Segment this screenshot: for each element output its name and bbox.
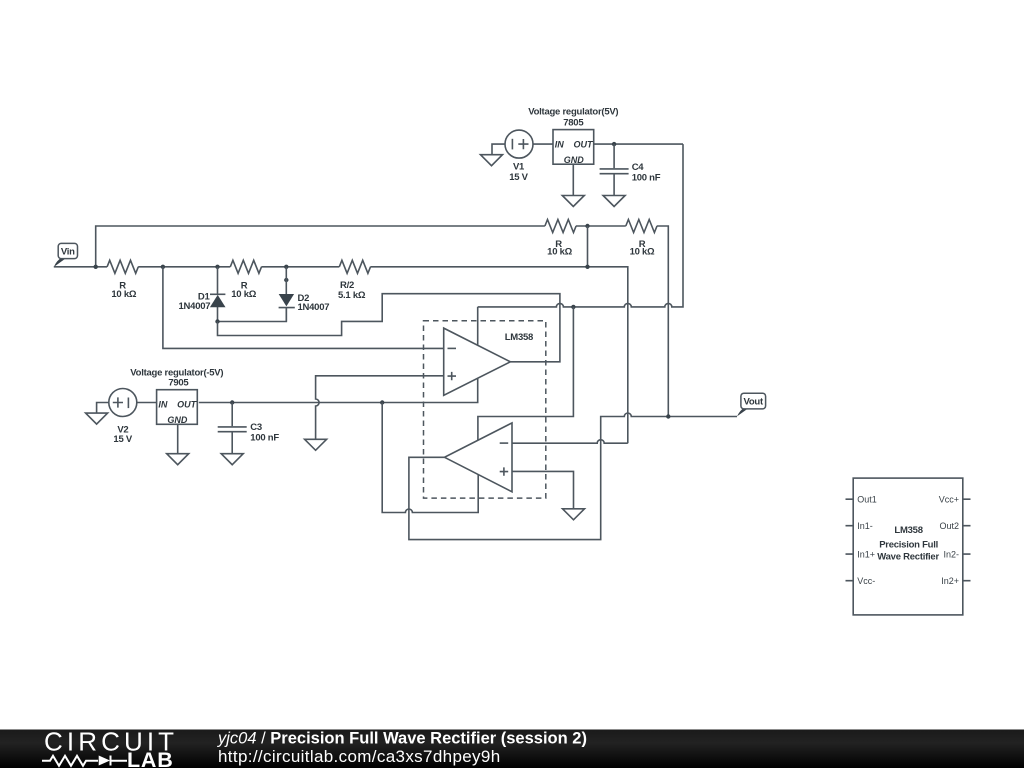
wire 7805 GND pin: [572, 164, 574, 195]
IC block LM358 Precision Full Wave Rectifier: [846, 478, 971, 615]
ground (V1): [481, 155, 503, 166]
Vin flag: [54, 243, 78, 267]
wire main input rail: [54, 267, 628, 443]
ground (op2 +): [563, 509, 585, 520]
wire vertical between top rail and main rail: [587, 226, 589, 267]
node dot Vout junction with top feedback resistor leg: [666, 414, 670, 418]
svg-text:Vin: Vin: [61, 247, 75, 258]
wire -5V rail from 7905 OUT to op1 V- pin (behind op1): [199, 307, 478, 403]
svg-text:C4: C4: [632, 162, 645, 173]
node dot D1 bottom: [215, 319, 219, 323]
svg-text:In2-: In2-: [943, 549, 959, 559]
wire +5V branch down to op2 V+ pin: [478, 307, 574, 441]
wire +5V rail from 7805 OUT down and across (hops three verticals): [478, 144, 683, 307]
diode D1 1N4007: [179, 292, 226, 313]
node dot main rail at x587: [585, 265, 589, 269]
capacitor C3 100nF: [218, 403, 280, 454]
svg-text:OUT: OUT: [177, 399, 198, 409]
ground (op1 +): [305, 439, 327, 450]
diode D2 1N4007: [279, 293, 330, 313]
wire 7805 OUT: [594, 143, 683, 145]
wire op1 non-inverting input to ground (hops -5V rail): [316, 376, 444, 440]
node dot at D1 top: [215, 265, 219, 269]
svg-text:Voltage regulator(5V): Voltage regulator(5V): [528, 106, 618, 117]
svg-text:http://circuitlab.com/ca3xs7dh: http://circuitlab.com/ca3xs7dhpey9h: [218, 747, 501, 766]
node dot between top resistors: [585, 224, 589, 228]
wire D1 branch: [217, 267, 219, 295]
footer bar: [0, 730, 1024, 768]
svg-text:Wave Rectifier: Wave Rectifier: [877, 552, 939, 563]
svg-text:GND: GND: [564, 155, 585, 165]
wire op2 inverting input (with hop over vout riser): [512, 440, 628, 444]
resistor R (top-right 10k): [626, 220, 657, 258]
dashed box around LM358 op-amps: [424, 321, 546, 498]
resistor R (top-left 10k): [545, 220, 576, 258]
ground (V2): [86, 413, 108, 424]
svg-text:7805: 7805: [563, 118, 584, 129]
svg-text:In2+: In2+: [941, 576, 959, 586]
capacitor C4 100nF: [600, 144, 661, 195]
voltage source V2 15V: [97, 389, 157, 446]
svg-text:yjc04 / Precision Full Wave Re: yjc04 / Precision Full Wave Rectifier (s…: [217, 730, 587, 748]
ground (C4): [603, 196, 625, 207]
node dot C3 tap: [230, 400, 234, 404]
svg-text:15 V: 15 V: [509, 172, 528, 183]
svg-text:10 kΩ: 10 kΩ: [630, 247, 655, 258]
wire op1 feedback stair from D1 bottom to op1 output: [218, 294, 560, 362]
wire op1 inverting input from node after R1: [163, 267, 444, 349]
voltage source V1 15V: [492, 130, 553, 183]
svg-text:In1+: In1+: [857, 549, 875, 559]
svg-text:7905: 7905: [168, 377, 189, 388]
wire op2 V- pin down and around to -5V rail (hop over op2 output): [382, 403, 478, 513]
svg-text:Out1: Out1: [857, 495, 877, 505]
node dot +5V branch: [571, 305, 575, 309]
svg-text:5.1 kΩ: 5.1 kΩ: [338, 290, 366, 301]
CircuitLab logo: [42, 727, 178, 768]
svg-text:V1: V1: [513, 161, 525, 172]
svg-text:100 nF: 100 nF: [250, 432, 279, 443]
svg-text:100 nF: 100 nF: [632, 173, 661, 184]
node dot -5V branch to op2: [380, 400, 384, 404]
node dot at D2 top: [284, 265, 288, 269]
ground (7805 GND): [562, 196, 584, 207]
wire 7905 GND pin: [177, 424, 179, 453]
svg-text:10 kΩ: 10 kΩ: [231, 289, 256, 300]
svg-text:LM358: LM358: [505, 332, 533, 343]
node A dot (Vin node): [94, 265, 98, 269]
wire D2 branch: [285, 267, 287, 294]
op-amp U1A (top): [444, 328, 511, 395]
svg-text:In1-: In1-: [857, 521, 873, 531]
node dot extra on D2 branch: [284, 278, 288, 282]
node dot C4 tap: [612, 142, 616, 146]
svg-text:IN: IN: [555, 139, 565, 149]
wire diode bottom link D1-D2: [218, 308, 287, 322]
svg-text:1N4007: 1N4007: [298, 302, 330, 313]
wire op2 output to Vout line (hops under, then up; hop over main riser): [409, 413, 737, 540]
svg-text:OUT: OUT: [574, 139, 595, 149]
wire op2 non-inverting input to ground: [512, 471, 574, 508]
Vout flag: [737, 393, 766, 416]
wire top feedback rail from Vin node to top resistors: [96, 226, 669, 417]
ground (7905 GND): [167, 454, 189, 465]
resistor R/2 5.1k: [338, 260, 371, 301]
op-amp U1B (bottom): [445, 423, 513, 492]
svg-text:Vcc-: Vcc-: [857, 576, 875, 586]
svg-text:Out2: Out2: [939, 521, 959, 531]
svg-text:1N4007: 1N4007: [179, 301, 211, 312]
svg-text:Vout: Vout: [743, 397, 763, 408]
svg-text:LM358: LM358: [894, 525, 922, 536]
voltage regulator 7805: [528, 106, 618, 165]
voltage regulator 7905: [130, 367, 223, 425]
svg-text:10 kΩ: 10 kΩ: [111, 289, 136, 300]
svg-text:Precision Full: Precision Full: [879, 539, 938, 550]
svg-text:GND: GND: [167, 415, 188, 425]
node dot after R1: [161, 265, 165, 269]
resistor R2 10k (middle): [230, 260, 261, 300]
ground (C3): [221, 454, 243, 465]
resistor R1 10k (input): [107, 260, 138, 300]
svg-text:10 kΩ: 10 kΩ: [547, 247, 572, 258]
svg-text:LAB: LAB: [127, 748, 174, 768]
svg-text:IN: IN: [158, 399, 168, 409]
svg-text:Vcc+: Vcc+: [939, 495, 959, 505]
svg-text:15 V: 15 V: [113, 434, 132, 445]
